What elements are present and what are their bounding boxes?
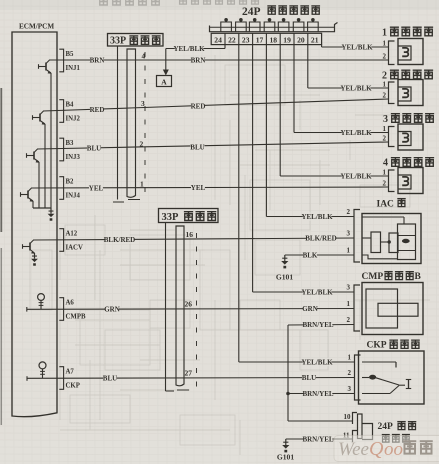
injector 1 title (1缸喷油器)	[382, 27, 433, 38]
label YEL (2nd)	[191, 183, 206, 192]
ground (ECM driver common)	[48, 208, 55, 221]
faint reverse-side bleed-through (decorative)	[30, 55, 430, 455]
33P (bottom) pin 26	[185, 300, 193, 309]
injector 3 title (3缸喷油器)	[383, 114, 434, 125]
24P junction pin boxes 24,22,23,17,18,19,20,21	[211, 33, 321, 44]
label YEL/BLK (IAC)	[301, 212, 333, 221]
svg-text:2: 2	[383, 92, 387, 100]
svg-text:RED: RED	[90, 106, 105, 114]
33P (top) pin 3	[141, 99, 145, 108]
transistor Q3 (INJ3 driver)	[27, 149, 40, 208]
label YEL/BLK (CKP)	[301, 358, 333, 367]
wire BRN/YEL from G101 to 24P(bottom) pin11	[286, 438, 353, 440]
ECM pin A12/IACV	[59, 229, 83, 252]
svg-text:3: 3	[347, 230, 351, 238]
wire YEL/BLK to injector3 pin1	[294, 132, 389, 134]
wire from 24P pin20 down (to injector2 pin1)	[307, 45, 309, 88]
emitter common bus	[33, 207, 51, 209]
injector 2 (cyl 2)	[383, 80, 424, 106]
scan edge artifact (decorative)	[0, 88, 2, 425]
label YEL/BLK (CMP)	[301, 288, 333, 297]
svg-text:27: 27	[185, 369, 193, 378]
svg-text:A7: A7	[66, 369, 75, 376]
transistor Q5 (IACV driver)	[23, 240, 36, 254]
svg-text:BLU: BLU	[302, 374, 316, 382]
label RED (2nd)	[191, 102, 206, 111]
IAC valve title (IAC阀)	[377, 199, 406, 210]
svg-text:1: 1	[383, 40, 387, 48]
ECM pin B3/INJ3	[59, 138, 80, 161]
terminal tick A6 wire	[26, 307, 28, 312]
CMP input symbol (ECM)	[38, 294, 45, 310]
svg-text:Wee: Wee	[338, 439, 369, 460]
ECM/PCM label	[19, 23, 54, 31]
label BLU (2nd)	[190, 143, 204, 152]
CKP sensor title (CKP传感器)	[367, 340, 420, 350]
CMP sensor B (with connector bracket and pins 3,1,2)	[347, 283, 424, 335]
terminal tick A7 wire	[26, 376, 28, 381]
wire from 24P pin22 down (to CKP pin1)	[238, 45, 240, 362]
label GRN	[104, 305, 120, 314]
wire BRN/YEL to CMP pin2	[288, 324, 354, 327]
svg-text:1: 1	[347, 247, 351, 255]
label BRN/YEL (CMP)	[302, 321, 333, 330]
wire YEL/BLK (main relay feed to 24P pin24)	[166, 48, 225, 50]
33P connector (top) left shell line	[113, 46, 124, 202]
label YEL/BLK (injector4)	[340, 172, 372, 181]
33P (top) pin 2	[140, 140, 144, 149]
injector 4 title (4缸喷油器)	[383, 158, 434, 169]
injector 4 (cyl 4)	[383, 168, 424, 194]
ECM pin B4/INJ2	[59, 100, 80, 123]
ECM pin A7/CKP	[59, 367, 80, 390]
24P junction connector title	[242, 6, 320, 18]
wire YEL/BLK to injector4 pin1	[280, 175, 388, 177]
wire to sheet reference A	[163, 49, 169, 76]
svg-text:G101: G101	[277, 452, 295, 461]
wire from 24P pin19 down (to injector3 pin1)	[293, 45, 295, 133]
svg-text:19: 19	[283, 35, 291, 44]
ECM pin B2/INJ4	[59, 177, 80, 200]
CMP sensor B title (CMP传感器B)	[362, 272, 422, 282]
wire YEL/BLK to CKP pin1	[239, 361, 354, 363]
injector 1 (cyl 1)	[383, 39, 424, 65]
33P (top) pin 1	[140, 180, 144, 189]
svg-text:B: B	[415, 272, 422, 282]
label YEL	[89, 184, 104, 193]
label YEL/BLK (injector2)	[340, 84, 372, 93]
wire BRN/YEL to 24P(bottom) pin10	[288, 420, 353, 422]
wire BLU (ECM A7 to CKP pin2)	[27, 377, 354, 380]
svg-text:3: 3	[141, 99, 145, 108]
IAC valve (with connector bracket and pins 2,3,1)	[347, 208, 422, 264]
svg-text:BLU: BLU	[103, 374, 117, 382]
svg-text:GRN: GRN	[302, 305, 318, 313]
label BRN/YEL (ground side)	[302, 435, 333, 444]
33P connector (top) dashed body line	[144, 52, 146, 200]
wire from 24P pin17 down (to IAC pin2)	[265, 45, 267, 217]
svg-text:YEL/BLK: YEL/BLK	[340, 84, 372, 92]
svg-text:B4: B4	[66, 102, 75, 109]
sheet reference box A	[157, 76, 172, 87]
svg-text:18: 18	[270, 35, 278, 44]
wire from 24P pin18 down (to injector4 pin1)	[279, 45, 281, 176]
label BRN (2nd)	[191, 56, 206, 65]
label BLK (IAC)	[303, 251, 318, 260]
svg-text:33P: 33P	[162, 212, 180, 223]
24P junction connector tray	[210, 23, 338, 32]
svg-text:IACV: IACV	[66, 245, 83, 252]
33P connector (top) title box	[108, 34, 164, 47]
wire YEL/BLK to CMP pin3	[253, 291, 354, 293]
wire RED (ECM B4 to injector2 pin2)	[43, 99, 389, 111]
svg-text:RED: RED	[191, 102, 206, 110]
ECM pin A6/CMPB	[59, 298, 86, 321]
svg-text:BRN: BRN	[90, 56, 105, 64]
wire BRN (ECM B5 to injector1 pin2)	[49, 59, 389, 61]
ground (IACV driver)	[31, 253, 38, 266]
wire BRN/YEL vertical (CMP/CKP ground bus)	[287, 325, 289, 421]
svg-text:INJ2: INJ2	[66, 116, 81, 123]
label BRN/YEL (CKP)	[302, 389, 333, 398]
33P connector (bottom) terminal bar	[176, 226, 189, 390]
label BLU (CKP feed)	[103, 374, 117, 383]
svg-text:24P: 24P	[242, 6, 261, 18]
label BLU (CKP)	[302, 373, 316, 382]
24P (bottom) connector body	[358, 414, 373, 440]
svg-text:B3: B3	[66, 140, 75, 147]
watermark WeeQoo维库 (decorative)	[334, 436, 439, 462]
33P connector (bottom) left shell line	[166, 223, 175, 392]
CKP input symbol (ECM)	[39, 362, 46, 378]
33P (bottom) pin 27	[185, 369, 193, 378]
label RED	[90, 106, 105, 115]
svg-text:CKP: CKP	[367, 341, 387, 351]
CKP sensor (with connector bracket and pins 1,2,3)	[348, 351, 425, 404]
svg-text:24P: 24P	[378, 422, 394, 432]
svg-text:YEL/BLK: YEL/BLK	[301, 358, 333, 366]
transistor Q4 (INJ4 driver)	[21, 188, 34, 208]
svg-text:YEL/BLK: YEL/BLK	[340, 172, 372, 180]
wire BLU (ECM B3 to injector3 pin2)	[37, 142, 389, 149]
33P connector (top) title	[110, 36, 161, 47]
wire BLK to IAC pin1 from G101	[285, 254, 354, 256]
24P junction connector contact bumps	[221, 18, 318, 32]
svg-text:2: 2	[383, 135, 387, 143]
wire YEL/BLK to IAC pin2	[266, 216, 354, 218]
svg-text:3: 3	[348, 385, 352, 393]
svg-text:B2: B2	[66, 179, 75, 186]
label BLK/RED	[104, 235, 136, 244]
label BLU	[87, 144, 101, 153]
ECM pin B5/INJ1	[59, 49, 80, 72]
ECM/PCM box	[12, 32, 57, 417]
label GRN (CMP)	[302, 304, 318, 313]
wire BRN/YEL to CKP pin3	[288, 393, 354, 395]
33P connector (bottom) dashed body line	[196, 233, 198, 390]
label YEL/BLK (injector1)	[341, 43, 373, 52]
svg-text:17: 17	[256, 35, 264, 44]
svg-text:2: 2	[140, 140, 144, 149]
junction dot (BRN/YEL branch)	[286, 392, 290, 396]
wire from 24P pin23 down (to CMP pin3)	[252, 45, 254, 292]
transistor Q1 (INJ1 driver)	[39, 60, 52, 208]
wire GRN (ECM A6 to CMP pin1)	[27, 308, 354, 311]
wire BLK/RED (ECM A12 to IAC pin3)	[33, 238, 354, 240]
svg-text:21: 21	[311, 35, 319, 44]
wire YEL/BLK to injector1 pin1	[322, 46, 389, 48]
24P (bottom) title (24P接线/插接器)	[378, 422, 417, 443]
wire YEL (ECM B2 to injector4 pin2)	[31, 187, 389, 188]
svg-text:YEL/BLK: YEL/BLK	[340, 129, 372, 137]
svg-text:GRN: GRN	[104, 305, 120, 313]
svg-text:1: 1	[383, 125, 387, 133]
svg-text:4: 4	[383, 158, 388, 169]
svg-text:INJ1: INJ1	[66, 65, 81, 72]
injector 2 title (2缸喷油器)	[382, 70, 433, 81]
label YEL/BLK (injector3)	[340, 128, 372, 137]
svg-text:24: 24	[214, 35, 222, 44]
24P (bottom) pin 10	[344, 413, 358, 425]
svg-text:2: 2	[348, 369, 352, 377]
svg-text:1: 1	[382, 28, 387, 39]
33P (bottom) pin 16	[186, 230, 194, 239]
svg-text:1: 1	[383, 169, 387, 177]
faint cropped header text (decorative)	[99, 0, 259, 5]
svg-text:2: 2	[383, 180, 387, 188]
svg-text:INJ3: INJ3	[66, 154, 81, 161]
ground G101 (sensor grounds)	[277, 439, 295, 461]
svg-text:1: 1	[140, 180, 144, 189]
label BRN	[90, 56, 105, 65]
wire from 24P pin24 down to YEL/BLK feed	[224, 45, 226, 49]
svg-text:1: 1	[347, 300, 351, 308]
33P (top) pin 4	[142, 52, 146, 61]
33P connector (bottom) title box	[159, 209, 219, 223]
svg-text:2: 2	[347, 208, 351, 216]
33P connector (top) terminal bar	[127, 49, 140, 200]
wire from 24P pin21 down (to injector1 pin1)	[321, 45, 323, 47]
svg-text:YEL: YEL	[191, 184, 206, 192]
injector 3 (cyl 3)	[383, 124, 424, 150]
label BLK/RED (IAC)	[305, 234, 337, 243]
transistor Q2 (INJ2 driver)	[33, 111, 46, 208]
svg-text:23: 23	[242, 35, 250, 44]
24P (bottom) pin 11	[343, 431, 357, 443]
wire YEL/BLK to injector2 pin1	[308, 87, 389, 89]
label YEL/BLK (feed)	[173, 44, 205, 53]
33P connector (bottom) title	[162, 212, 217, 223]
ground G101 (IAC)	[276, 255, 294, 282]
